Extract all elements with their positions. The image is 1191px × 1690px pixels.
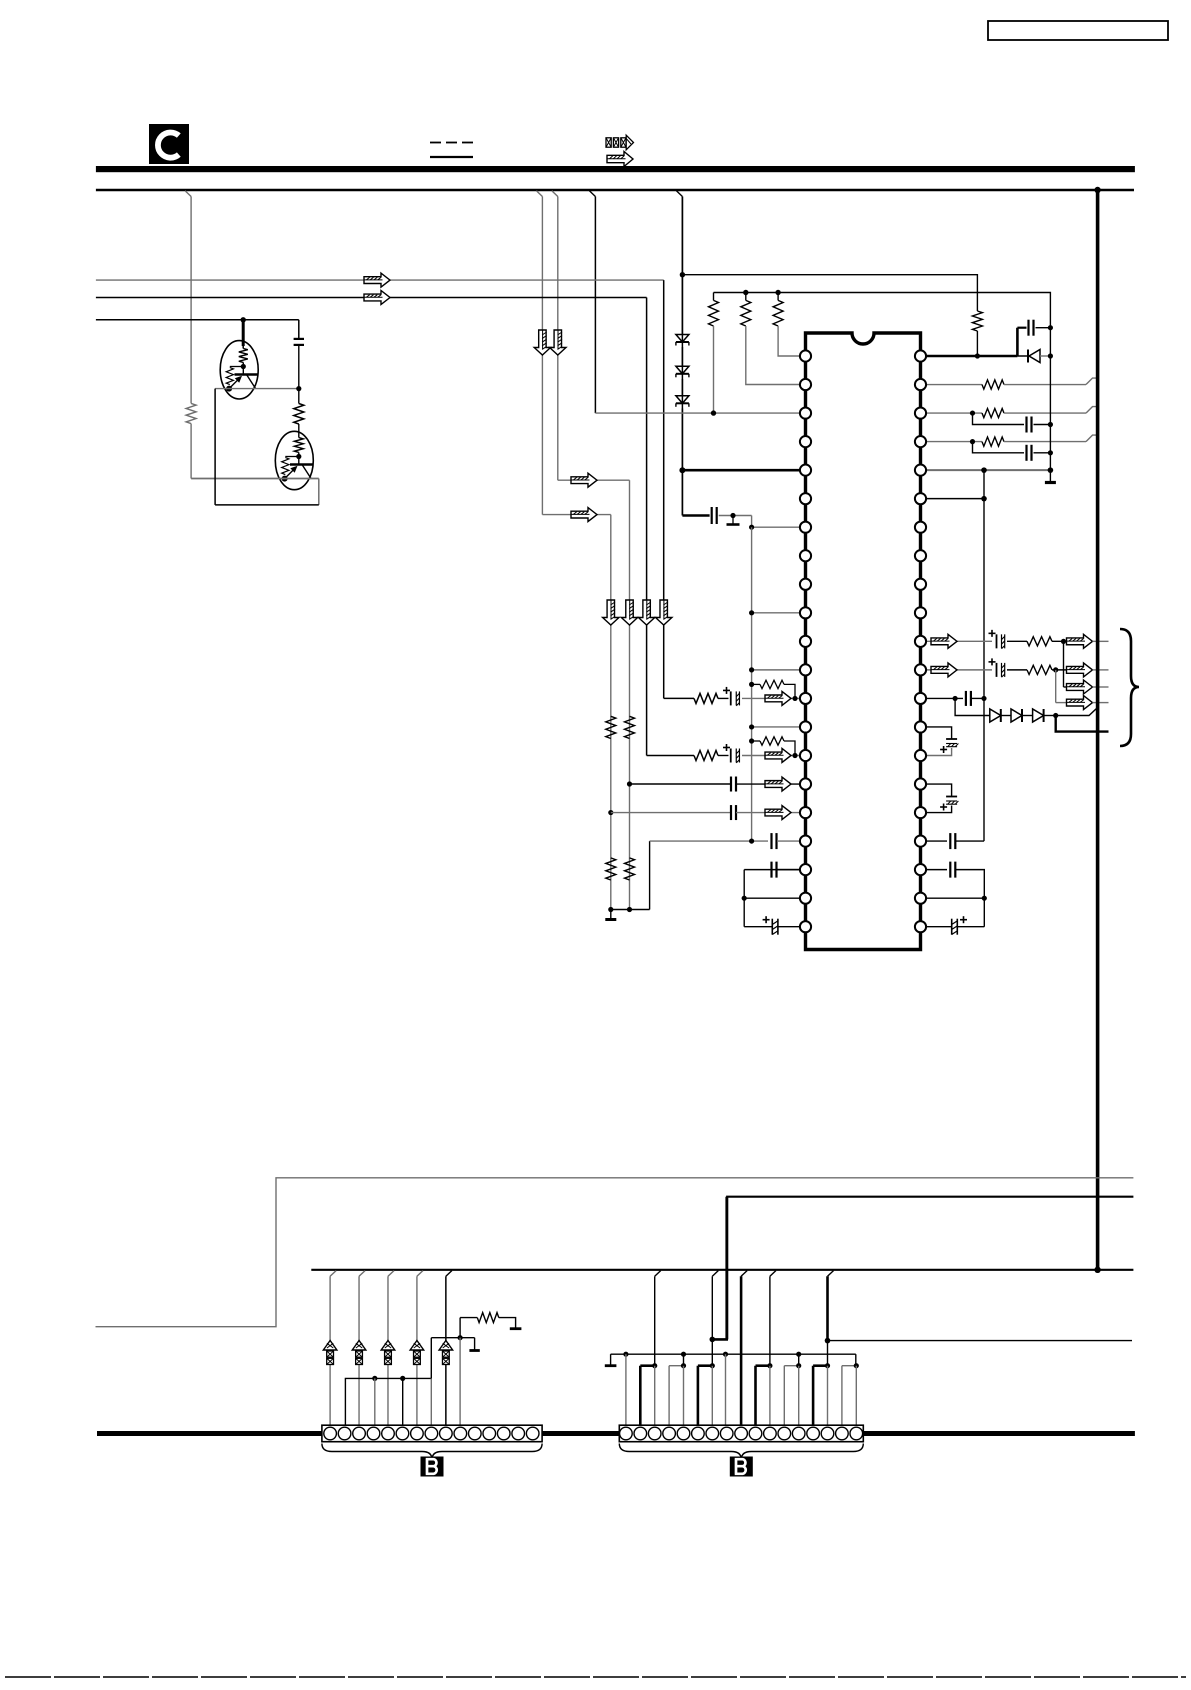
output branch arrow row 3 [1063, 641, 1065, 687]
left connector drop 3 [388, 1271, 394, 1277]
digital transistor Q1 [220, 341, 258, 399]
thick bottom bus segment right [863, 1431, 1135, 1436]
diode string D2 [681, 347, 683, 366]
digital transistor Q2 [275, 431, 313, 489]
legend dashed line [430, 142, 441, 144]
wire from drop 2 to arrow [558, 479, 630, 481]
pin2R row resistor to bus [926, 384, 982, 386]
vertical to pin18L row [649, 841, 651, 909]
left connector drop 5 [446, 1271, 452, 1277]
bottom distribution bus [311, 1269, 1133, 1271]
junction of line A on diode feed [680, 272, 685, 277]
wire corner to coupling cap [682, 514, 709, 517]
bottom page separation line [5, 1676, 1186, 1678]
diode D4 [1017, 355, 1027, 357]
right connector rail [611, 1353, 856, 1355]
down arrow row of four 3 [638, 600, 654, 625]
wire down to pin7L [752, 516, 800, 528]
down arrow on drop 2 [550, 330, 566, 355]
series diodes D5 D6 D7 [955, 698, 990, 715]
hatched arrow B [571, 508, 597, 522]
pin5R wire [926, 469, 1050, 471]
wire from drop 1 to arrow [542, 514, 610, 516]
junction on wire 3 [241, 317, 246, 322]
down arrow on drop 1 [534, 330, 550, 355]
pin17L row with capacitor and arrow [608, 810, 613, 815]
long vertical right of IC [983, 470, 985, 841]
pin13R capacitor to vertical [926, 697, 963, 699]
hatched arrow A [571, 473, 597, 487]
input wire 2 [96, 297, 647, 299]
pin12L wire [752, 669, 800, 671]
right connector hook pins12-13 [783, 1366, 785, 1434]
rail tap to pin8 [723, 1352, 728, 1357]
ground bar of common vertical [1049, 470, 1051, 481]
pin15L input row (resistor, electrolytic cap, arrow, parallel resistor) [647, 754, 694, 756]
bus entry arrows on left connector drops [323, 1341, 337, 1351]
thick wire to pin5L [682, 469, 800, 472]
right vertical bus [1096, 190, 1100, 1270]
diode string D1 [681, 197, 683, 335]
resistor R2 above IC [741, 300, 751, 326]
input wire 1 [96, 279, 664, 281]
right connector hook pins4-5 [668, 1366, 670, 1434]
thick bottom bus segment middle [542, 1431, 619, 1436]
pin16R-17R electrolytic cap [926, 784, 952, 796]
right connector hook pins10-11 [754, 1366, 757, 1434]
top right reference box [988, 21, 1168, 40]
pin12R output row [926, 669, 992, 671]
pin10L wire [752, 612, 800, 614]
ground wire near R5 [431, 1337, 474, 1339]
brace for output group [1120, 629, 1139, 746]
wire from pins14-15 net to right [828, 1340, 1133, 1342]
emitter net wire of Q1 [215, 388, 299, 390]
pin6R wire [926, 498, 984, 500]
right connector hook pins16-17 [841, 1366, 843, 1434]
down arrow row of four 4 [656, 600, 672, 625]
left connector drop 2 [359, 1271, 365, 1277]
junction at top of right vertical bus [1094, 187, 1100, 193]
rail tap to pin1 [623, 1352, 628, 1357]
left connector drop 4 [417, 1271, 423, 1277]
label B left [421, 1457, 444, 1477]
thick stub to brace [1056, 716, 1109, 732]
brace under left connector [322, 1444, 542, 1460]
wire from far left to bottom-left region [96, 1178, 1134, 1327]
resistor left of Q1 [186, 403, 196, 423]
connector B right [619, 1425, 863, 1442]
thick jog wire into pins6-7 net [712, 1197, 726, 1340]
pin3R branch capacitor [973, 413, 1025, 424]
pin11R output row [926, 640, 992, 642]
input wire 1 vertical [663, 280, 665, 698]
ground stub under resistor columns [610, 910, 612, 919]
wire drop (gray) 1 [536, 191, 542, 197]
legend bus-entry arrow symbol [606, 138, 611, 147]
pin3R row resistor to bus [926, 412, 982, 414]
resistor pair lower left [606, 858, 616, 880]
wire upper bottom-right [727, 1197, 1133, 1340]
thick drop to pins14-15 net [828, 1271, 834, 1277]
hatched arrow on input wire 1 [364, 273, 390, 287]
vertical to lower-left resistors A [629, 480, 631, 909]
IC U1 body [806, 333, 921, 950]
pin14L wire [752, 726, 800, 728]
thick bottom bus segment left [97, 1431, 322, 1436]
R5 right lead to ground [499, 1318, 516, 1328]
capacitor near Q1 [298, 320, 300, 339]
pin16L row with capacitor and arrow [627, 781, 632, 786]
input wire 3 (to Q1) [96, 319, 299, 321]
top bus (thick) [96, 166, 1135, 172]
left connector drop 1 [330, 1271, 336, 1277]
legend solid line [430, 156, 473, 158]
wire drop 4 (diode string feed) [676, 191, 682, 197]
pin18R capacitor to vertical [926, 840, 947, 842]
Q1 feed (thick) [242, 320, 245, 346]
pin14R-15R electrolytic cap [926, 727, 952, 739]
junction right bus to bottom bus [1094, 1267, 1100, 1273]
pin1R thick wire with cap and diode [926, 355, 1017, 358]
IC U1 pins right [915, 350, 926, 932]
input wire 2 vertical [646, 298, 648, 756]
pin13L input row (resistor, electrolytic cap, arrow, parallel resistor) [664, 697, 694, 699]
long vertical feed left of IC [751, 527, 753, 841]
pin19L-21L capacitor group [768, 869, 800, 871]
resistor R5 near left connector [477, 1313, 499, 1323]
right connector hook pins14-15 [812, 1366, 815, 1434]
diode string D3 [681, 379, 683, 396]
section label C [149, 124, 189, 164]
wire A to pull-up resistor R4 [682, 275, 977, 311]
right connector hook pins6-7 [697, 1366, 700, 1434]
top horizontal wire [96, 189, 1134, 191]
pin19R-21R capacitor group [926, 869, 947, 871]
down arrow row of four 1 [603, 600, 619, 625]
resistor pair upper left [606, 716, 616, 738]
resistor R3 above IC [773, 300, 783, 326]
wire drop3 to pin3L [595, 412, 800, 414]
resistor R1 above IC [709, 300, 719, 326]
capacitor C into pin7L net [711, 507, 713, 524]
emitter net loop wires [191, 478, 319, 480]
IC U1 pins left [800, 350, 811, 932]
bottom tie wire of resistor columns [611, 909, 650, 911]
junction R1 bottom [711, 410, 716, 415]
hatched arrow on input wire 2 [364, 291, 390, 305]
legend hatched arrow symbol [607, 152, 633, 167]
brace under right connector [619, 1444, 863, 1460]
thick drop to pin9 [741, 1271, 747, 1277]
ground distribution wire to pins 2,4,6,8 [345, 1338, 431, 1434]
cap/diode common vertical [1049, 328, 1051, 470]
rail ground [610, 1354, 612, 1364]
diode row jog to bus [1056, 709, 1098, 716]
wire R5 junction to connector pin10 [459, 1338, 461, 1434]
vertical to lower-left resistors B [610, 515, 612, 910]
pin4R row resistor to bus [926, 441, 982, 443]
ground tap on pin7L net [730, 513, 735, 518]
wire drop (gray) 2 [552, 191, 558, 197]
wire drop to Q1 area [185, 191, 191, 197]
pin4R branch capacitor [973, 442, 1025, 453]
rail end corner to pins16-17 net [855, 1354, 857, 1366]
output branch arrow row 4 [1055, 670, 1057, 703]
wire drop 3 [589, 191, 595, 197]
pin18L row with capacitor [650, 840, 768, 842]
label B right [730, 1457, 753, 1477]
connector B left [322, 1425, 542, 1442]
right connector hook pins2-3 [639, 1366, 642, 1434]
resistor under capacitor [294, 404, 304, 425]
wire B resistor tops [714, 293, 1051, 328]
pull-up resistor R4 right of IC [972, 311, 982, 331]
down arrow row of four 2 [621, 600, 637, 625]
